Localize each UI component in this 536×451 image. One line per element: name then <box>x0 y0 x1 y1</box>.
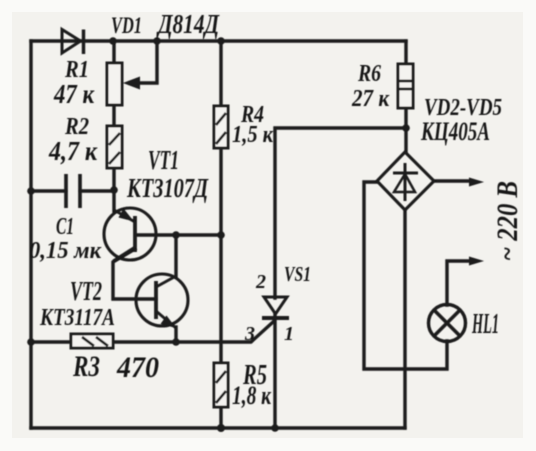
svg-text:~ 220 В: ~ 220 В <box>491 181 524 261</box>
transistor VT2 <box>136 274 188 328</box>
wire R5 bottom lead <box>219 407 222 428</box>
wire VS1 anode line <box>275 128 406 298</box>
wire R1 to R2 <box>112 105 115 126</box>
svg-text:HL1: HL1 <box>471 309 499 340</box>
svg-text:VT2: VT2 <box>70 276 102 306</box>
wire bridge bottom to bottom rail <box>403 210 406 428</box>
svg-text:27 к: 27 к <box>351 86 390 112</box>
bridge rectifier VD2-VD5 <box>377 152 434 210</box>
wire R1 wiper to top rail <box>135 41 157 83</box>
svg-text:Д814Д: Д814Д <box>156 9 221 39</box>
wire bottom rail <box>31 426 405 429</box>
svg-text:0,15 мк: 0,15 мк <box>29 238 102 264</box>
svg-text:R3: R3 <box>72 350 100 383</box>
wire VS1 cathode line <box>273 314 276 428</box>
wire bridge right output <box>434 179 471 182</box>
wire R3 left lead <box>31 340 71 343</box>
output arrow bottom <box>469 257 484 266</box>
capacitor C1 <box>66 174 80 208</box>
potentiometer R1 <box>107 63 122 105</box>
wire top rail <box>31 39 406 42</box>
resistor R3 <box>71 334 113 348</box>
VT2 emitter arrow <box>161 316 177 329</box>
wire lamp top output <box>447 261 471 305</box>
svg-text:R6: R6 <box>357 61 381 87</box>
wire R2 to VT1 emitter <box>112 168 115 211</box>
svg-text:VS1: VS1 <box>284 262 311 286</box>
svg-text:3: 3 <box>244 323 255 345</box>
resistor R2 <box>107 126 122 168</box>
svg-text:1: 1 <box>284 323 294 345</box>
wire VT2 emitter lead <box>174 327 177 342</box>
VT1 emitter arrow <box>119 209 135 222</box>
wire left rail <box>29 41 32 428</box>
svg-text:VD1: VD1 <box>111 13 142 38</box>
wire R4 to R5 <box>219 148 222 363</box>
svg-text:1,5 к: 1,5 к <box>232 122 274 148</box>
R1 wiper arrow <box>123 77 140 90</box>
wire R6 to bridge <box>404 108 407 152</box>
svg-text:КТ3107Д: КТ3107Д <box>126 173 209 203</box>
wire VT1 base to R4 line <box>136 233 221 236</box>
svg-text:4,7 к: 4,7 к <box>48 136 98 166</box>
wire R1 top lead <box>112 41 115 63</box>
resistor R4 <box>214 106 228 148</box>
svg-text:VT1: VT1 <box>148 145 179 175</box>
wire bridge left to lamp bottom <box>364 182 447 369</box>
thyristor VS1 <box>262 297 289 318</box>
lamp HL1 <box>429 305 466 342</box>
resistor R6 <box>398 64 413 108</box>
svg-text:КЦ405А: КЦ405А <box>420 117 490 146</box>
wire R3 to VS1 gate <box>113 322 273 342</box>
lighter scan margins <box>0 0 536 12</box>
wire R4 top lead <box>219 41 222 106</box>
output arrow top <box>469 178 484 187</box>
wire R6 top lead <box>404 41 407 64</box>
wire C1 right lead <box>80 189 114 192</box>
svg-text:С1: С1 <box>56 214 74 240</box>
svg-text:КТ3117А: КТ3117А <box>39 305 115 331</box>
transistor VT1 <box>104 208 156 261</box>
wire VT1 collector to VT2 base <box>113 249 156 299</box>
svg-text:1,8 к: 1,8 к <box>232 381 272 410</box>
wire VT2 collector lead <box>174 235 177 277</box>
resistor R5 <box>214 363 228 407</box>
svg-text:470: 470 <box>116 351 159 384</box>
svg-text:47 к: 47 к <box>53 79 95 109</box>
diode VD1 <box>62 30 84 55</box>
svg-text:2: 2 <box>255 271 266 293</box>
wire C1 left lead <box>31 189 66 192</box>
